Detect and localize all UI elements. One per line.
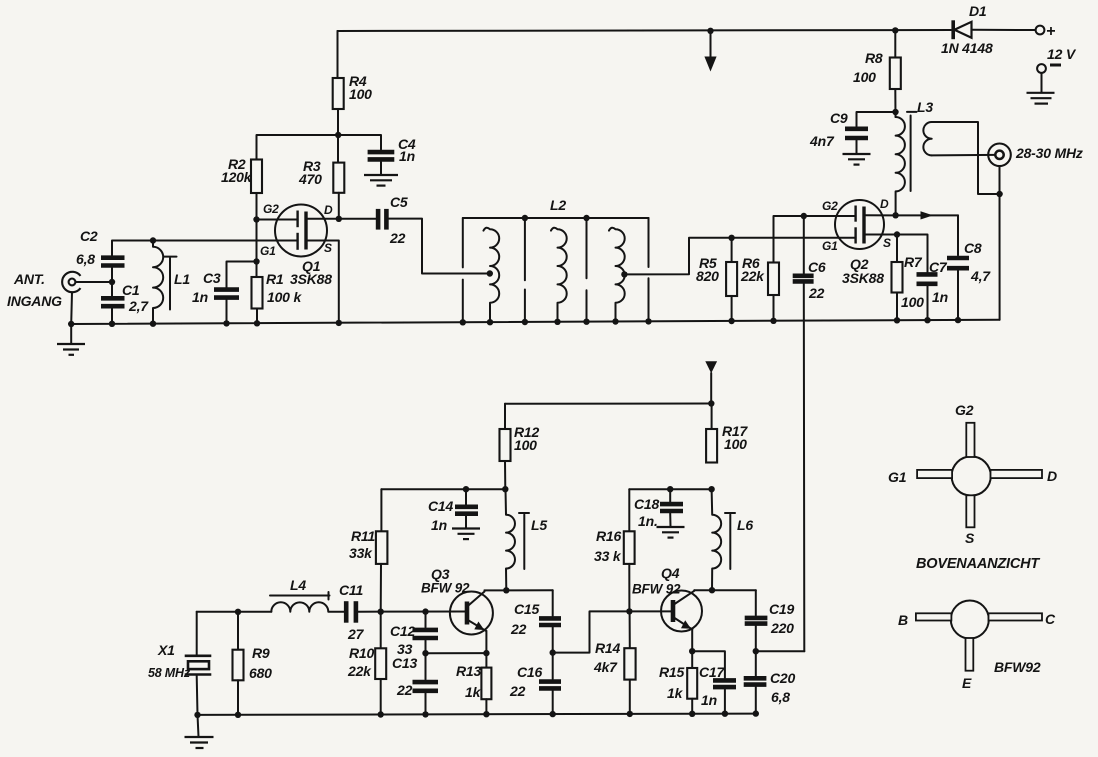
wire R4 bottom to node [337,109,339,163]
core line L5 [519,513,529,569]
svg-text:D: D [1047,468,1057,484]
junction R6 / bus [770,318,776,324]
wire Q4 collector rail [694,589,756,591]
junction L2 bus: partition 1 [522,319,528,325]
transistor Q4 collector stroke [674,590,695,604]
svg-text:1N 4148: 1N 4148 [941,40,993,56]
svg-text:58 MHz: 58 MHz [148,666,191,680]
inductor L3 primary [896,114,905,215]
wire C20 bottom to bus [755,687,757,714]
wire injection node to mixer riser [756,650,805,652]
wire antenna shell to ground bus [70,292,73,324]
svg-text:1k: 1k [667,685,684,701]
junction L2 coil c tap [621,271,627,277]
wire L2 coil c tap to Q2 G1 [624,238,855,275]
core line L4 [270,592,330,600]
junction R11/R10 base node [378,609,384,615]
svg-text:E: E [962,675,972,691]
junction C15/C16/coupling [550,649,556,655]
wire C1 bottom to bus [111,309,113,324]
svg-text:X1: X1 [157,642,175,658]
junction Q1 drain node [336,216,342,222]
capacitor C6 22 [793,276,814,282]
inductor L5 [506,489,515,590]
svg-text:22k: 22k [740,268,765,284]
wire R14 bottom to bus [629,680,631,714]
capacitor C9 4n7 [845,129,868,138]
svg-text:BFW 92: BFW 92 [632,582,681,597]
resistor R12 [500,429,511,461]
capacitor C17 1n [713,680,736,687]
svg-text:1n: 1n [192,289,208,305]
svg-text:C7: C7 [929,259,948,275]
svg-text:3SK88: 3SK88 [290,271,332,287]
wire oscillator base line (left) [197,611,272,613]
svg-text:INGANG: INGANG [7,293,62,309]
resistor R13 [481,668,491,700]
junction C3 node [253,258,259,264]
wire ground stem antenna [70,324,72,344]
svg-text:D: D [324,203,333,217]
junction rail / arrow / R17 [708,400,714,406]
svg-text:27: 27 [347,626,365,642]
junction shell / link ground [996,191,1002,197]
junction antenna / bus [68,321,74,327]
wire R7 bottom to bus [896,293,898,321]
junction R17 / rail right [708,486,714,492]
svg-text:R13: R13 [456,663,481,679]
wire C14 stem [465,489,467,504]
wire R12 bottom to left feed rail [504,461,506,489]
svg-text:C15: C15 [514,601,539,617]
svg-text:1n: 1n [431,517,447,533]
junction R7 / bus [894,317,900,323]
svg-text:L1: L1 [174,271,190,287]
svg-text:R14: R14 [595,640,620,656]
junction partition2 / top rail [583,215,589,221]
inductor L2 coil b [551,228,567,322]
capacitor C18 1n [660,504,683,511]
wire Q3 collector rail [485,589,553,591]
transistor Q3 BFW92 body circle [450,592,493,635]
wire G2 node down to C6 [803,216,805,273]
wire supply rail (bottom section) [505,403,712,405]
resistor R9 [233,650,244,681]
inductor L1 [153,241,163,324]
wire R5 bottom to bus [731,296,733,321]
wire C8 stem from D wire [957,215,959,255]
transistor Q1 channel bar [304,212,307,250]
pin S (top view) [966,495,974,527]
svg-text:G1: G1 [888,469,907,485]
junction partition1 / top rail [522,215,528,221]
resistor R5 [726,262,737,296]
terminal - (12V) [1037,64,1061,73]
ground at bottom bus [185,737,214,748]
junction C7 / bus [924,317,930,323]
svg-text:G1: G1 [822,239,838,253]
svg-text:S: S [324,241,332,255]
pin E (BFW92 view) [966,638,974,671]
wire L2 box top rail [463,217,649,219]
wire R10 bottom to bus [380,679,382,715]
wire C6 down to oscillator injection (crosses bus) [803,284,806,652]
junction Q2 G2 / C6 [801,213,807,219]
wire C12 to emitter node [425,640,427,679]
svg-text:C: C [1045,611,1056,627]
wire C13 bottom to bus [425,693,427,714]
svg-text:C2: C2 [80,228,98,244]
wire R8 bottom to L3 node [894,89,896,117]
capacitor C5 22 [378,209,386,230]
node supply tap arrow (top, points down) [704,31,716,72]
capacitor C20 6,8 [744,678,767,684]
capacitor C13 22 [413,682,439,691]
svg-text:22k: 22k [347,663,372,679]
svg-text:R1: R1 [266,271,284,287]
inductor L2 coil c [609,228,625,322]
wire Q1 G2 lead [257,219,298,221]
svg-text:820: 820 [696,268,719,284]
svg-text:L4: L4 [290,577,306,593]
svg-text:100 k: 100 k [267,289,302,305]
svg-text:470: 470 [298,171,322,187]
wire ground bus (top section) [71,320,999,324]
wire R15 stem [691,651,693,668]
wire node to R2 top [257,135,339,160]
junction L2 bus: coil c [612,318,618,324]
resistor R2 [251,160,262,194]
svg-text:1n: 1n [701,692,717,708]
wire L2 partition 2 (with gap) [586,218,588,322]
junction R5 / bus [728,318,734,324]
connector 28-30 MHz output [988,144,1011,167]
svg-text:S: S [965,530,975,546]
wire C19 bottom to injection node [755,626,757,676]
wire Q1 D lead [306,218,339,220]
capacitor C19 220 [745,618,768,624]
wire Q1 S lead and drop to bus [306,241,339,323]
wire C2 bottom to node [111,268,113,296]
wire antenna pin to C1/C2 node [76,281,113,283]
svg-text:120k: 120k [221,169,253,185]
svg-text:1n: 1n [399,148,415,164]
inductor L4 [271,602,344,612]
capacitor C7 1n [917,274,938,283]
svg-text:22: 22 [510,621,527,637]
junction Q4 base node (R16/R14) [626,608,632,614]
wire C3 top to bias node [227,262,257,288]
resistor R3 [333,163,344,193]
pin B (BFW92 view) [916,613,952,620]
junction R13 / bottom bus [483,711,489,717]
svg-text:22: 22 [389,230,406,246]
capacitor C14 1n [455,507,478,514]
transistor Q4 emitter stroke with arrow [674,618,693,630]
wire R9 bottom to bus [237,680,239,715]
wire R11 bottom to base line [380,564,382,612]
wire C16 bottom to bus [552,691,554,714]
wire R6 bottom to bus [773,295,775,321]
svg-text:BOVENAANZICHT: BOVENAANZICHT [916,556,1040,572]
junction top rail / R8 [892,27,898,33]
junction L2 bus: wall right [645,318,651,324]
svg-text:C14: C14 [428,498,453,514]
svg-text:ANT.: ANT. [13,271,45,287]
node supply arrow (bottom section, points down into rail) [705,361,717,403]
svg-text:Q4: Q4 [661,565,680,581]
svg-text:100: 100 [514,437,537,453]
junction S / R7 [894,231,900,237]
wire C9 bottom to ground [856,140,858,153]
wire rail corner down to R11 [380,489,382,531]
wire C18 stem [669,489,671,501]
junction top rail / arrow tap [707,28,713,34]
junction C17 / bottom bus [722,711,728,717]
svg-text:4k7: 4k7 [593,659,618,675]
junction G2 bias node Q1 [253,216,259,222]
svg-text:100: 100 [724,436,747,452]
wire R10 stem [380,612,382,649]
capacitor C1 2,7 [101,298,125,306]
wire C18 to ground [669,513,671,526]
transistor Q4 base bar [671,600,676,622]
svg-text:G2: G2 [822,199,838,213]
wire L2 shield wall right (with gap) [648,218,650,321]
svg-text:B: B [898,612,908,628]
wire R1 bottom to bus [256,309,258,324]
svg-text:R15: R15 [659,664,684,680]
transistor Q3 emitter stroke with arrow [468,620,486,631]
junction C16 / bottom bus [550,711,556,717]
wire - terminal to ground [1041,73,1043,93]
svg-text:BFW 92: BFW 92 [421,581,470,596]
svg-text:R8: R8 [865,50,883,66]
terminal + (12V) [1036,26,1045,35]
transistor Q2 channel bar [862,207,865,244]
svg-text:C18: C18 [634,496,659,512]
svg-text:C13: C13 [392,655,417,671]
wire R8 top stem [894,30,896,57]
wire rail stub to R4 [337,31,339,78]
junction C13 / bottom bus [422,711,428,717]
svg-text:+: + [1046,23,1055,40]
pin D (top view) [991,470,1043,478]
wire R14 stem [629,611,631,648]
junction C3 / bus [223,320,229,326]
svg-text:4n7: 4n7 [809,133,835,149]
resistor R10 [375,648,386,679]
svg-text:6,8: 6,8 [771,689,790,705]
svg-text:L5: L5 [531,517,547,533]
junction R9 / base line [235,609,241,615]
svg-text:C8: C8 [964,240,982,256]
resistor R4 [333,78,344,109]
svg-text:1n: 1n [932,289,948,305]
wire Q3 emitter down to node [485,631,487,653]
svg-text:6,8: 6,8 [76,251,95,267]
arrowhead on D wire [921,211,934,219]
svg-text:C12: C12 [390,623,415,639]
junction Q4 emitter / R15 [689,648,695,654]
wire R17 stem [711,404,713,430]
svg-text:C19: C19 [769,601,794,617]
svg-text:2,7: 2,7 [128,298,149,314]
junction R9 / bottom bus [235,712,241,718]
wire L2 shield wall left (with gap) [462,218,464,322]
junction L2 bus: coil a [487,319,493,325]
resistor R7 [892,262,903,293]
wire C11 to Q3 base [358,611,465,613]
svg-text:D1: D1 [969,3,987,19]
transistor Q3 collector stroke [468,590,485,606]
resistor R8 [890,58,901,90]
junction Q2 D / L3 [892,212,898,218]
wire Q4 emitter down to node [691,630,693,652]
resistor R6 [768,263,779,296]
wire C12 stem [425,612,427,628]
junction X1 / bottom bus [194,712,200,718]
inductor L2 coil a [484,228,500,323]
junction Q3 emitter / R13 [483,650,489,656]
svg-text:G2: G2 [955,402,974,418]
wire connector shell down to bus [999,166,1001,320]
capacitor C8 4,7 [947,258,969,268]
svg-text:100: 100 [901,294,924,310]
svg-text:C5: C5 [390,194,408,210]
svg-text:12 V: 12 V [1047,46,1077,62]
svg-text:C16: C16 [517,664,542,680]
ground below C14 [452,529,480,540]
junction C2/C1/antenna [109,279,115,285]
wire R2 bottom to G2 node to C3 node to R1 [256,193,258,277]
capacitor C11 27 [346,601,356,623]
pin G1 (top view) [917,470,952,478]
wire Q2 S lead [864,235,928,273]
svg-text:R10: R10 [349,645,374,661]
wire link top to shell ground [932,122,1000,194]
transistor Q1 3SK88 body circle [275,205,327,257]
wire C7 bottom to bus [927,286,929,320]
svg-text:C20: C20 [770,670,795,686]
svg-text:R9: R9 [252,645,270,661]
resistor R17 [706,429,717,463]
svg-text:3SK88: 3SK88 [842,270,884,286]
junction R12 / rail [502,486,508,492]
junction R1 / bus [254,320,260,326]
svg-text:L6: L6 [737,517,753,533]
device bottom view: BFW92 body [951,601,989,639]
junction C12 base node [422,608,428,614]
svg-text:C6: C6 [808,259,826,275]
junction L2 coil a tap [487,270,493,276]
wire rail corner down to R16 [628,489,630,531]
junction R8 / L3 / C9 [892,109,898,115]
wire R5 stem [731,238,733,262]
junction L1 top [150,237,156,243]
transistor Q2 3SK88 body circle [835,200,884,249]
svg-text:BFW92: BFW92 [994,659,1041,675]
junction L5 / collector [503,587,509,593]
junction C1 / bus [109,321,115,327]
wire D node to C5 [339,218,376,220]
junction C20 / bottom bus [753,710,759,716]
junction L1 / bus [150,321,156,327]
junction Q1 S / bus [336,320,342,326]
svg-text:22: 22 [808,285,825,301]
wire R7 stem [896,235,898,263]
wire bottom ground bus [197,714,756,715]
wire top supply rail [338,30,952,31]
wire Q4 emitter to C17 [692,651,725,678]
transistor Q4 BFW92 body circle [661,591,702,632]
ground below C9 [843,154,871,165]
wire C15 bottom to coupling node [552,627,554,679]
wire node to C4 [338,135,381,150]
wire C8 bottom to bus [957,271,959,321]
svg-text:D: D [880,197,889,211]
junction L2 bus: partition 2 [583,319,589,325]
wire diode to + terminal [972,29,1036,31]
wire rail to R12 [504,404,506,429]
wire C2 top to G1 wire [112,241,298,256]
junction C19/C20/injection [753,648,759,654]
svg-text:33k: 33k [349,545,373,561]
core line L1 [164,257,177,310]
core line L3 [907,112,917,191]
transistor Q2 gate bar (dashed) [854,206,856,244]
resistor R11 [376,531,388,564]
resistor R14 [624,648,635,679]
ground below C18 [657,527,685,538]
junction C18 / rail [667,486,673,492]
wire R13 bottom to bus [485,699,487,714]
wire rail right segment [629,488,711,490]
svg-text:4,7: 4,7 [970,268,991,284]
svg-text:1k: 1k [465,684,482,700]
pin C (BFW92 view) [989,613,1043,620]
transistor Q1 gate bar (dashed) [296,211,298,250]
svg-text:28-30 MHz: 28-30 MHz [1015,145,1083,161]
svg-text:L3: L3 [917,99,933,115]
wire Q2 G2 lead to R6 [774,216,856,263]
svg-text:G1: G1 [260,244,276,258]
wire R9 stem [237,612,239,650]
resistor R16 [624,531,635,564]
svg-text:L2: L2 [550,197,566,213]
capacitor C4 1n [368,152,395,159]
pin G2 (top view) [966,423,974,457]
wire R16 bottom to base node [628,564,630,612]
capacitor C16 22 [539,682,561,689]
svg-text:1n.: 1n. [638,513,658,529]
junction C14 / rail [463,486,469,492]
capacitor C3 1n [214,290,239,298]
wire link bottom to connector pin [932,154,996,157]
wire left feed rail [381,488,505,490]
wire R3 bottom to D node [338,193,340,219]
wire R13 stem [485,653,487,668]
wire C17 bottom to bus [724,689,726,713]
ground below C4 [364,175,398,186]
transistor Q3 base bar [465,602,470,625]
svg-text:R16: R16 [596,528,621,544]
wire coupling node to Q4 base [553,611,672,652]
capacitor C2 6,8 [101,258,125,266]
svg-text:C11: C11 [339,582,363,598]
svg-text:R7: R7 [904,254,923,270]
svg-text:C17: C17 [699,664,725,680]
